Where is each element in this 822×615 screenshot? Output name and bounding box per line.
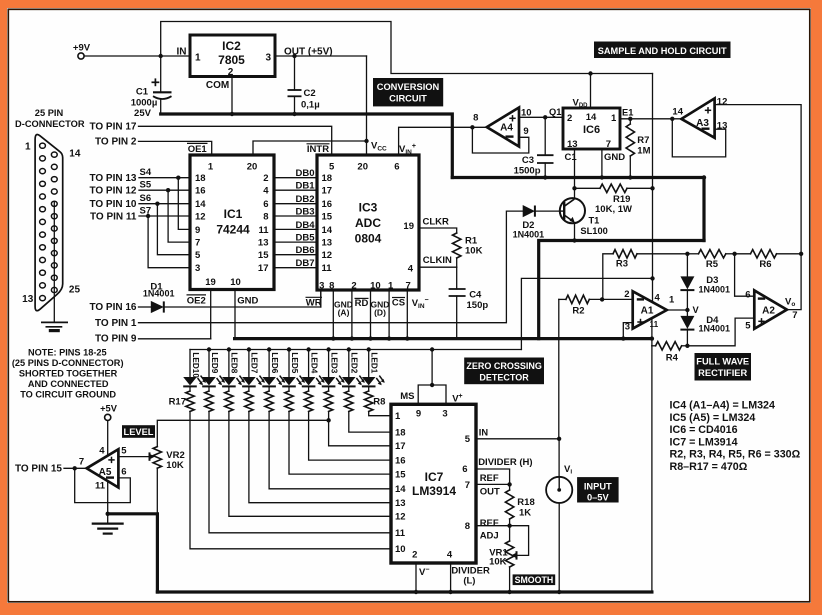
node RD label [355,298,369,309]
svg-text:14: 14 [69,148,81,159]
switch IC6 CD4016 [563,108,620,150]
svg-text:16: 16 [322,199,333,210]
svg-text:C3: C3 [522,155,534,166]
wire TO PIN 9 to OE2 [95,334,211,345]
regulator IC2 7805 [177,35,333,78]
svg-text:1N4001: 1N4001 [143,289,175,299]
svg-text:3: 3 [319,281,324,292]
wire TO PIN 2 to OE1 [95,136,212,155]
label box SAMPLE AND HOLD CIRCUIT [594,42,731,59]
svg-text:0–5V: 0–5V [587,492,610,502]
svg-text:7: 7 [195,238,200,249]
svg-text:R8–R17 = 470Ω: R8–R17 = 470Ω [670,461,748,473]
svg-text:19: 19 [403,221,414,232]
svg-text:7: 7 [792,310,797,321]
note text block [12,347,124,399]
svg-text:TO PIN 17: TO PIN 17 [89,121,136,132]
resistor R11 [245,386,391,502]
svg-text:74244: 74244 [216,222,250,236]
svg-text:3: 3 [442,408,447,419]
svg-text:IC7 = LM3914: IC7 = LM3914 [670,436,738,448]
svg-text:4: 4 [263,186,269,197]
svg-text:TO PIN 9: TO PIN 9 [95,334,137,345]
svg-text:ZERO CROSSING: ZERO CROSSING [466,361,542,371]
svg-text:25: 25 [69,284,81,295]
svg-text:11: 11 [258,225,269,236]
svg-text:16: 16 [395,456,406,467]
op-amp A1 [624,289,675,333]
+9V supply terminal [73,43,91,60]
resistor R4 [652,342,688,364]
svg-text:14: 14 [395,484,406,495]
ground (D-connector) [41,322,68,330]
svg-text:1N4001: 1N4001 [513,230,545,240]
wire IC3 pin stub x=333.3 [331,290,335,341]
svg-text:TO PIN 15: TO PIN 15 [15,463,62,474]
svg-text:5: 5 [121,446,127,457]
wire +5V output [275,54,367,58]
svg-text:1: 1 [208,162,214,173]
ground link A5/VR2 to bottom bus [108,514,158,592]
parts list notes [670,400,801,473]
resistor R17 label [169,397,186,408]
svg-text:REF: REF [480,518,499,529]
wire A5 output TO PIN 15 [15,457,87,475]
resistor R16 [345,386,391,432]
node V+ label [452,393,462,405]
resistor R8 [186,386,391,548]
svg-text:OE2: OE2 [187,295,206,306]
wire IC3 pin stub x=370.5 [368,290,372,341]
svg-text:8: 8 [263,211,268,222]
wire Vin+ pin 6 to A4 [399,125,487,155]
svg-text:AND CONNECTED: AND CONNECTED [28,379,109,389]
svg-text:17: 17 [395,441,406,452]
wire TO PIN 12 (S5) [89,180,190,243]
ground bus (bus3) [539,241,704,339]
svg-text:1000µ: 1000µ [131,98,158,109]
svg-text:11: 11 [95,481,106,492]
resistor R12 [265,386,391,488]
svg-text:LED6: LED6 [270,352,279,373]
svg-text:6: 6 [745,290,750,301]
25 pin D-connector [15,108,85,311]
wire top rail from IN node to sample-and-hold [161,22,653,76]
LED9 [202,350,225,387]
svg-text:14: 14 [586,112,597,123]
svg-text:10K: 10K [465,246,483,257]
svg-text:15: 15 [395,470,406,481]
svg-text:R17: R17 [169,397,186,408]
svg-text:6: 6 [121,467,126,478]
LED7 [242,350,265,387]
wire IC6 pin 7 GND to bus [600,149,626,180]
svg-text:13: 13 [258,238,269,249]
svg-text:18: 18 [395,428,406,439]
svg-text:10K, 1W: 10K, 1W [595,204,632,215]
svg-text:15: 15 [258,250,269,261]
resistor R5 [687,250,736,270]
svg-text:7: 7 [405,281,410,292]
wire IC3 pin stub x=407.3 [405,290,409,341]
svg-text:DETECTOR: DETECTOR [479,373,529,383]
svg-text:TO PIN 10: TO PIN 10 [89,199,136,210]
svg-text:R4: R4 [666,353,679,364]
svg-text:IC6: IC6 [583,124,600,136]
svg-text:OUT: OUT [480,487,500,498]
wire TO PIN 17 to INTR [89,121,331,155]
wire A1 output to node V [667,305,700,315]
ground bus (bus2) [452,175,706,240]
node CS label [392,298,405,309]
svg-text:IC4 (A1–A4) = LM324: IC4 (A1–A4) = LM324 [670,400,775,412]
svg-text:5: 5 [745,321,751,332]
resistor R7 1M [626,119,650,180]
wire TO PIN 16 with diode D1 [89,290,320,313]
svg-text:RECTIFIER: RECTIFIER [698,368,747,378]
svg-text:TO PIN 2: TO PIN 2 [95,136,137,147]
svg-text:8: 8 [465,521,470,532]
svg-text:6: 6 [394,162,399,173]
label box LEVEL [122,425,155,438]
node Vin+ label [399,143,416,156]
svg-text:R5: R5 [706,259,719,270]
svg-text:2: 2 [624,289,629,300]
wire V+ drop to IC7 MS/V+ [430,350,434,388]
wire A4 feedback pin 9 [472,127,528,153]
wire IC3 pin stub x=389.1 [387,290,391,341]
wire +5V down to Vcc node [364,56,368,155]
svg-text:R3: R3 [616,259,628,270]
svg-text:DB2: DB2 [295,194,314,205]
svg-text:(25 PINS D-CONNECTOR): (25 PINS D-CONNECTOR) [12,358,124,368]
wire DB2 [274,194,317,205]
label box FULL WAVE RECTIFIER [695,353,752,381]
svg-text:11: 11 [395,528,406,539]
svg-text:LED2: LED2 [350,352,359,373]
svg-text:7805: 7805 [218,53,245,67]
LED2 [342,350,365,387]
potentiometer VR1 10K [489,526,529,595]
wire IC6 pin 13 (C1) to T1 collector [565,149,578,188]
node GND (A) label [334,300,353,318]
svg-text:1N4001: 1N4001 [699,284,731,294]
svg-text:4: 4 [447,550,453,561]
LED10 [183,350,206,387]
wire A5 pin 5 to VR2 wiper [118,452,154,460]
svg-text:5: 5 [329,162,335,173]
svg-text:A2: A2 [762,305,775,316]
resistor R3 [603,250,688,300]
svg-text:6: 6 [263,199,268,210]
svg-text:TO PIN 12: TO PIN 12 [89,186,136,197]
bottom ground bus [157,590,652,593]
ground (level section) [92,514,124,534]
svg-text:8: 8 [473,113,478,124]
wire DB0 [274,168,317,179]
svg-text:14: 14 [195,199,206,210]
svg-text:SHORTED TOGETHER: SHORTED TOGETHER [19,368,118,378]
wire IC3 pin stub x=351.9 [350,290,354,341]
op-amp A2 [745,290,797,332]
svg-text:5: 5 [195,250,201,261]
svg-text:13: 13 [395,498,406,509]
resistor R2 [559,295,633,316]
node Vin- label [412,297,429,310]
svg-text:1: 1 [611,113,617,124]
wire A1 pin 3 to ground bus [621,323,633,341]
svg-text:DB0: DB0 [295,168,314,179]
svg-text:LED3: LED3 [329,352,338,373]
svg-text:INPUT: INPUT [584,481,612,491]
wire A5 feedback pin 6 [75,468,131,502]
wire IC7 pin 2 V- [414,563,418,594]
svg-text:ADJ: ADJ [480,531,499,542]
svg-text:LED1: LED1 [370,352,379,373]
label box CONVERSION CIRCUIT [373,78,443,106]
svg-text:IC3: IC3 [359,201,378,215]
svg-text:D-CONNECTOR: D-CONNECTOR [15,119,85,129]
svg-text:17: 17 [258,263,269,274]
svg-text:GND: GND [604,152,625,163]
svg-text:6: 6 [462,464,467,475]
wire ground to bottom bus (right side) [651,346,653,592]
wire DB6 [274,245,317,256]
diode D2 1N4001 [513,205,560,240]
resistor R17 [365,386,392,415]
svg-text:R6: R6 [759,259,771,270]
wire +9V branch to LED rail [521,276,654,349]
svg-text:R8: R8 [373,397,385,408]
svg-text:LED5: LED5 [290,352,299,373]
svg-text:LED9: LED9 [210,352,219,373]
svg-text:10: 10 [230,277,241,288]
svg-text:A4: A4 [500,122,513,133]
svg-text:R7: R7 [637,135,649,146]
svg-text:7: 7 [465,480,470,491]
wire DB3 [274,206,317,217]
resistor R8 label [373,397,385,408]
svg-text:C1: C1 [565,152,578,163]
capacitor C4 [449,267,489,338]
svg-text:DB3: DB3 [295,206,314,217]
wire A2 output [787,254,801,310]
wire IC6 pin 1 to A3 (node E1) [620,107,681,121]
+5V terminal [100,403,118,420]
wire TO PIN 1 to D2 [95,211,523,329]
svg-text:RD: RD [355,298,369,309]
node V- label [419,566,429,578]
svg-text:+9V: +9V [73,43,91,54]
svg-text:12: 12 [717,97,728,108]
svg-text:CLKR: CLKR [423,217,450,228]
wire TO PIN 11 (S7) [90,205,190,267]
wire IC7 pin 8 ref adj [476,518,510,542]
svg-text:LM3914: LM3914 [412,484,456,498]
wire Vcc to IC1 pin 20 [253,141,367,155]
svg-text:1: 1 [195,53,201,64]
svg-text:2: 2 [567,113,572,124]
source Vi INPUT 0-5V [546,439,572,594]
svg-text:TO PIN 13: TO PIN 13 [89,173,136,184]
svg-text:1N4001: 1N4001 [699,324,731,334]
node DIVIDER (L) label [451,566,490,587]
svg-text:4: 4 [408,263,414,274]
svg-text:DIVIDER (H): DIVIDER (H) [478,457,532,468]
svg-text:11: 11 [322,263,333,274]
svg-text:SL100: SL100 [580,226,607,236]
svg-text:4: 4 [99,446,105,457]
svg-text:A1: A1 [641,306,654,317]
svg-text:E1: E1 [622,107,633,117]
svg-text:(D): (D) [374,308,386,318]
svg-text:A5: A5 [99,467,112,478]
wire DB4 [274,220,317,231]
label box INPUT 0-5V [577,477,619,502]
svg-text:3: 3 [265,53,271,64]
wire A3 pin 12 to A2 output (right side) [715,105,802,254]
svg-text:1500p: 1500p [514,166,541,177]
svg-text:2: 2 [228,67,234,78]
node OE1 label [187,143,208,155]
svg-text:S4: S4 [140,167,152,178]
svg-text:1: 1 [395,411,401,422]
svg-text:2: 2 [412,550,417,561]
svg-text:12: 12 [322,250,333,261]
svg-text:4: 4 [655,293,661,304]
wire CLKIN [419,255,457,267]
svg-text:ADC: ADC [355,216,381,230]
svg-text:CIRCUIT: CIRCUIT [389,93,427,103]
capacitor C1 [131,56,172,119]
svg-text:IC7: IC7 [425,470,444,484]
buffer IC1 74244 [190,155,274,290]
svg-text:TO PIN 11: TO PIN 11 [90,211,137,222]
diode D3 1N4001 [680,252,730,310]
svg-text:MS: MS [400,391,414,402]
wire IC7 pin 5 IN to input node [476,427,561,441]
resistor R18 1K [505,484,534,528]
resistor R13 [285,386,391,474]
svg-text:7: 7 [606,139,611,150]
wire OE2 pin 19 stub [210,289,212,339]
svg-text:LEVEL: LEVEL [124,427,154,437]
resistor R1 [419,228,483,267]
svg-text:3: 3 [195,263,200,274]
svg-text:9: 9 [195,225,200,236]
svg-text:IN: IN [177,47,187,58]
svg-text:15: 15 [322,211,333,222]
svg-text:13: 13 [567,139,578,150]
svg-text:DB6: DB6 [295,245,314,256]
op-amp A5 [87,446,128,492]
resistor R10 [225,386,391,516]
LED anode rail (+9V) [190,347,521,351]
svg-text:DB4: DB4 [295,220,315,231]
svg-text:A3: A3 [696,118,709,129]
transistor T1 SL100 [560,188,608,242]
wire IC7 pin 7 ref out [476,473,512,498]
svg-text:18: 18 [322,173,333,184]
node MS label [400,391,414,402]
wire A4 pin 10 to IC6 pin 2 (node Q1) [519,107,563,119]
node OE2 label [187,295,207,306]
node Vdd label [573,98,589,110]
wire A3 feedback pin 13 [672,119,725,157]
ground bus top (bus1) [161,114,453,178]
svg-text:V: V [693,305,700,315]
svg-text:12: 12 [395,512,406,523]
IC2 COM pin wire [206,77,234,117]
diode D1 labels [143,281,175,298]
wire VR2 top to pin 17 node [157,418,330,447]
svg-text:20: 20 [357,162,368,173]
wire DB5 [274,233,317,244]
svg-text:DB7: DB7 [295,258,314,269]
svg-text:FULL WAVE: FULL WAVE [696,357,749,367]
svg-text:Q1: Q1 [549,107,561,117]
svg-text:14: 14 [672,106,683,117]
wire +9V vertical to R19 / A1 supply [651,74,654,346]
LED8 [222,350,245,387]
svg-text:COM: COM [206,80,229,91]
svg-text:20: 20 [247,162,258,173]
svg-text:9: 9 [523,126,528,137]
LED1 [362,350,385,387]
svg-text:0804: 0804 [355,232,382,246]
wire IC6 pin 14 to +9V rail [590,74,592,109]
wire IC7 pin 6 divider-H [476,457,533,485]
svg-text:IN: IN [479,427,489,437]
svg-text:19: 19 [205,277,216,288]
svg-text:LED4: LED4 [309,352,318,373]
potentiometer VR2 10K [153,447,185,514]
resistor R15 [324,386,391,445]
svg-text:LED7: LED7 [250,352,259,373]
svg-text:11: 11 [650,320,659,329]
svg-text:IC5 (A5) = LM324: IC5 (A5) = LM324 [670,412,756,424]
svg-text:(L): (L) [463,576,475,587]
LED6 [262,350,285,387]
node INTR label [307,144,330,155]
capacitor C3 [514,117,554,179]
svg-text:5: 5 [465,434,471,445]
svg-text:1M: 1M [637,146,650,157]
svg-text:25V: 25V [134,108,152,119]
LED5 [282,350,305,387]
svg-text:+5V: +5V [100,403,118,413]
op-amp A4 [473,107,531,146]
svg-text:TO PIN 1: TO PIN 1 [95,318,137,329]
svg-text:0,1µ: 0,1µ [301,99,320,110]
svg-text:CONVERSION: CONVERSION [377,82,440,92]
resistor R9 [205,386,391,532]
svg-text:GND: GND [237,295,258,306]
wire A2 pin 6 to R5/R6 node [735,254,755,296]
wire IC1 GND pin 10 stub [235,289,258,339]
svg-text:16: 16 [195,186,206,197]
svg-text:DB1: DB1 [295,181,315,192]
wire +9V to IC2 IN [84,54,190,58]
driver IC7 LM3914 [391,404,476,563]
svg-text:12: 12 [195,211,206,222]
node CLKR label [423,217,450,228]
svg-text:C2: C2 [304,88,316,99]
svg-text:IC1: IC1 [224,207,243,221]
svg-text:R2, R3, R4, R5, R6 = 330Ω: R2, R3, R4, R5, R6 = 330Ω [670,449,801,461]
ground bus middle (bus4) [235,336,655,340]
node WR label [306,297,323,308]
